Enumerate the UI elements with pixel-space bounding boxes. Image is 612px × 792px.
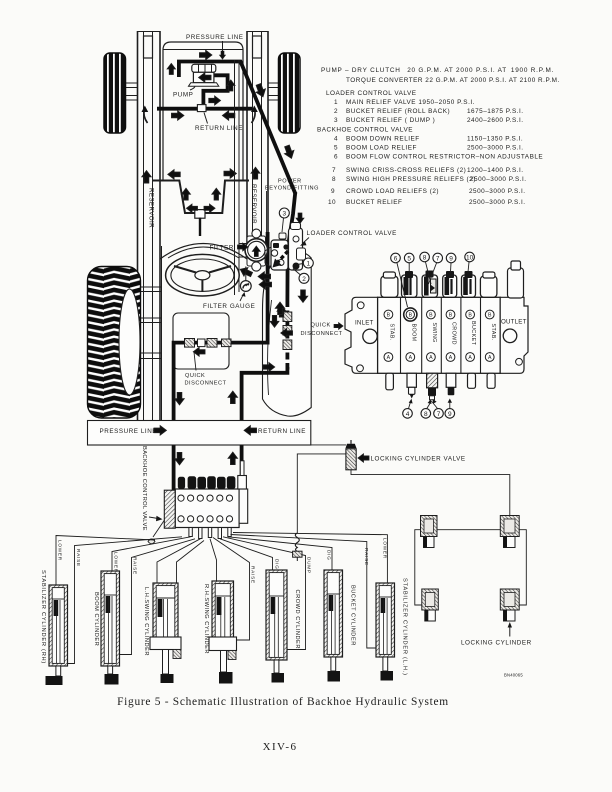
section cap stab2 bbox=[480, 272, 497, 297]
quick disconnect couplers right bbox=[283, 312, 292, 350]
svg-text:BACKHOE CONTROL VALVE: BACKHOE CONTROL VALVE bbox=[317, 127, 413, 134]
port circles row A bbox=[384, 353, 494, 362]
cylinder rh swing bbox=[209, 581, 237, 684]
svg-text:2500–3000 P.S.I.: 2500–3000 P.S.I. bbox=[469, 188, 526, 195]
curved arrow right of return bbox=[251, 106, 258, 124]
svg-text:1: 1 bbox=[334, 99, 338, 106]
quick disconnect chain right (dashed) bbox=[285, 300, 289, 370]
frame rail right bbox=[247, 31, 268, 252]
svg-text:2500–3000 P.S.I.: 2500–3000 P.S.I. bbox=[470, 176, 527, 183]
svg-text:CROWD: CROWD bbox=[451, 322, 457, 345]
svg-text:POWER: POWER bbox=[278, 179, 302, 185]
pump bbox=[189, 64, 219, 86]
bottom spool swing (reliefs 8,7) bbox=[427, 373, 438, 400]
svg-text:10: 10 bbox=[466, 254, 474, 261]
locking circuit feed bbox=[351, 470, 510, 515]
band arrows above bbox=[175, 393, 184, 405]
svg-text:BOOM DOWN RELIEF: BOOM DOWN RELIEF bbox=[346, 136, 420, 143]
svg-text:MAIN RELIEF VALVE 1950–2050 P.: MAIN RELIEF VALVE 1950–2050 P.S.I. bbox=[346, 99, 475, 106]
quick disconnect label left bbox=[185, 373, 227, 387]
svg-text:LOCKING CYLINDER: LOCKING CYLINDER bbox=[461, 640, 532, 647]
power beyond leader line bbox=[266, 191, 268, 250]
svg-text:LOCKING CYLINDER VALVE: LOCKING CYLINDER VALVE bbox=[371, 456, 466, 463]
locking valve feed line bbox=[297, 454, 346, 533]
front axle right bbox=[268, 83, 279, 100]
svg-text:DISCONNECT: DISCONNECT bbox=[301, 331, 343, 337]
down arrow right of circled 3 bbox=[296, 213, 304, 223]
svg-text:BOOM CYLINDER: BOOM CYLINDER bbox=[93, 592, 99, 646]
svg-text:LOWER: LOWER bbox=[114, 552, 119, 573]
svg-text:RAISE: RAISE bbox=[133, 557, 138, 575]
section labels bbox=[389, 321, 496, 346]
hose stab lh lower bbox=[233, 533, 387, 584]
teardrop connector bbox=[148, 520, 165, 544]
svg-text:7: 7 bbox=[436, 255, 440, 262]
bottom spool bucket bbox=[468, 373, 476, 388]
hose lh swing a bbox=[157, 539, 200, 583]
funnel arrows bbox=[168, 170, 180, 179]
svg-text:BN40065: BN40065 bbox=[504, 673, 523, 678]
backhoe valve body bbox=[175, 489, 239, 528]
svg-text:PUMP: PUMP bbox=[173, 92, 193, 99]
bottom spool boom (relief 4) bbox=[407, 373, 416, 398]
svg-text:L.H.SWING CYLINDER: L.H.SWING CYLINDER bbox=[143, 587, 149, 656]
svg-text:BEYOND FITTING: BEYOND FITTING bbox=[265, 186, 319, 192]
svg-text:QUICK: QUICK bbox=[311, 323, 331, 329]
svg-text:BUCKET: BUCKET bbox=[470, 321, 476, 346]
circled 9 bottom bbox=[445, 399, 455, 419]
svg-text:1: 1 bbox=[306, 261, 310, 268]
svg-text:RAISE: RAISE bbox=[251, 566, 256, 584]
band bottom supply line to locking valve bbox=[88, 444, 347, 446]
curved arrow left of return bbox=[142, 106, 149, 124]
svg-text:A: A bbox=[429, 355, 433, 361]
loader control valve body bbox=[265, 223, 306, 271]
svg-text:2: 2 bbox=[302, 276, 306, 283]
svg-text:6: 6 bbox=[394, 255, 398, 262]
hose coil bbox=[295, 533, 299, 552]
svg-text:RAISE: RAISE bbox=[76, 549, 81, 567]
loader valve flow arrows bbox=[238, 265, 253, 279]
circled 1 bbox=[297, 258, 313, 268]
filter gauge bbox=[240, 281, 251, 292]
pressure line (thick) bbox=[179, 62, 296, 195]
backhoe valve relief tower bbox=[238, 461, 247, 489]
svg-text:4: 4 bbox=[406, 411, 410, 418]
svg-text:DISCONNECT: DISCONNECT bbox=[185, 381, 227, 387]
cylinder crowd bbox=[266, 570, 287, 683]
locking cylinder label bbox=[461, 622, 532, 647]
svg-text:STAB.: STAB. bbox=[490, 324, 496, 341]
svg-text:RAISE: RAISE bbox=[364, 548, 369, 566]
svg-text:RESERVOIR: RESERVOIR bbox=[250, 184, 257, 224]
svg-text:10: 10 bbox=[328, 199, 336, 206]
svg-text:7: 7 bbox=[437, 411, 441, 418]
hose stab rh raise bbox=[64, 537, 182, 664]
steering wheel bbox=[166, 254, 240, 296]
svg-text:STAB.: STAB. bbox=[389, 324, 395, 341]
quick disconnect right arrow bbox=[281, 329, 293, 338]
svg-text:8: 8 bbox=[332, 176, 336, 183]
circled 10 top bbox=[465, 252, 475, 272]
hose crowd dig bbox=[220, 539, 273, 570]
svg-text:INLET: INLET bbox=[355, 320, 374, 327]
backhoe valve left plate bbox=[164, 490, 175, 528]
svg-text:RETURN LINE: RETURN LINE bbox=[195, 125, 243, 132]
hose stab rh lower bbox=[56, 536, 155, 586]
svg-text:STABILIZER CYLINDER (RH): STABILIZER CYLINDER (RH) bbox=[40, 570, 46, 664]
hose rh swing a bbox=[210, 539, 217, 581]
svg-text:XIV-6: XIV-6 bbox=[263, 741, 298, 753]
reservoir up arrow right rail bbox=[251, 167, 260, 179]
return line coupler bbox=[197, 105, 206, 112]
band arrows below bbox=[175, 453, 184, 465]
backhoe valve right plate bbox=[239, 489, 248, 523]
backhoe valve port circles bottom row bbox=[178, 516, 233, 522]
locking loop top bbox=[437, 529, 500, 531]
loader control valve label bbox=[300, 230, 397, 246]
circled 7 bottom bbox=[432, 399, 444, 418]
svg-text:DUMP: DUMP bbox=[307, 557, 312, 574]
circled 6 bbox=[391, 253, 408, 307]
return line (thick) bbox=[157, 107, 252, 111]
svg-text:4: 4 bbox=[334, 136, 338, 143]
svg-text:A: A bbox=[468, 355, 472, 361]
power beyond fitting label bbox=[265, 179, 319, 192]
svg-text:BOOM FLOW CONTROL RESTRICTOR–N: BOOM FLOW CONTROL RESTRICTOR–NON ADJUSTA… bbox=[346, 154, 543, 161]
svg-text:2: 2 bbox=[334, 108, 338, 115]
svg-text:A: A bbox=[409, 355, 413, 361]
svg-text:5: 5 bbox=[334, 145, 338, 152]
operator seat box bbox=[173, 313, 229, 369]
section cap swing (reliefs 8,7) bbox=[422, 271, 437, 298]
hose crowd dump bbox=[223, 537, 306, 650]
bottom spool stab2 bbox=[487, 373, 495, 388]
hose lh swing b bbox=[177, 541, 205, 638]
quick disconnect left leader bbox=[194, 352, 196, 371]
arrow to inlet bbox=[334, 323, 343, 330]
cylinder stabilizer rh bbox=[46, 585, 68, 685]
circled 3 bbox=[279, 208, 289, 232]
svg-text:Figure 5 - Schematic Illustrat: Figure 5 - Schematic Illustration of Bac… bbox=[117, 696, 449, 708]
svg-text:SWING HIGH PRESSURE RELIEFS (2: SWING HIGH PRESSURE RELIEFS (2) bbox=[346, 176, 476, 183]
svg-text:LOWER: LOWER bbox=[383, 538, 388, 559]
svg-text:B: B bbox=[429, 313, 433, 319]
cylinder boom bbox=[101, 571, 120, 685]
filter label bbox=[210, 243, 248, 251]
svg-text:3: 3 bbox=[282, 211, 286, 218]
valve bank body bbox=[378, 297, 501, 373]
outlet end plate bbox=[500, 297, 528, 373]
circled 4 bottom bbox=[403, 399, 413, 418]
svg-text:A: A bbox=[449, 355, 453, 361]
svg-text:R.H.SWING CYLINDER: R.H.SWING CYLINDER bbox=[203, 584, 209, 654]
circled 7 top bbox=[429, 253, 443, 284]
svg-text:BUCKET RELIEF ( DUMP ): BUCKET RELIEF ( DUMP ) bbox=[346, 117, 435, 124]
pressure line leader arrow bbox=[219, 41, 225, 59]
svg-text:8: 8 bbox=[424, 411, 428, 418]
svg-text:7: 7 bbox=[332, 167, 336, 174]
svg-text:B: B bbox=[468, 313, 472, 319]
loader valve drop line (thick) bbox=[174, 232, 268, 511]
svg-text:PRESSURE LINE: PRESSURE LINE bbox=[186, 34, 244, 41]
section cap crowd (relief 9) bbox=[443, 271, 457, 297]
svg-text:A: A bbox=[488, 355, 492, 361]
circled 5 bbox=[404, 253, 414, 272]
inlet end plate bbox=[345, 297, 378, 373]
hose bucket dig bbox=[228, 537, 332, 570]
cylinder stabilizer lh bbox=[376, 583, 395, 681]
svg-text:TORQUE CONVERTER 22 G.P.M. AT: TORQUE CONVERTER 22 G.P.M. AT 2000 P.S.I… bbox=[346, 77, 560, 84]
svg-text:B: B bbox=[387, 313, 391, 319]
bottom spool stab1 bbox=[386, 373, 394, 390]
loader tower capsule bbox=[263, 251, 312, 416]
filter assembly bbox=[245, 229, 268, 271]
capsule flow arrows bbox=[270, 316, 279, 328]
svg-text:B: B bbox=[488, 313, 492, 319]
locking cylinder BL bbox=[422, 589, 439, 621]
fender line bbox=[161, 246, 163, 420]
svg-text:BOOM LOAD RELIEF: BOOM LOAD RELIEF bbox=[346, 145, 417, 152]
section divider lines bbox=[401, 297, 481, 373]
hose stab lh raise bbox=[231, 535, 380, 649]
svg-text:FILTER: FILTER bbox=[210, 245, 235, 252]
rear axle lines bbox=[140, 287, 162, 359]
svg-text:OUTLET: OUTLET bbox=[501, 319, 527, 326]
cylinder bucket bbox=[324, 570, 343, 682]
circled 8 bottom bbox=[421, 399, 432, 418]
hose boom lower bbox=[112, 537, 191, 571]
svg-text:5: 5 bbox=[407, 255, 411, 262]
svg-text:SWING: SWING bbox=[431, 323, 437, 343]
front tire right bbox=[279, 53, 301, 133]
svg-text:DIG: DIG bbox=[327, 550, 332, 561]
right rail lower lines bbox=[235, 60, 240, 295]
svg-text:DIG: DIG bbox=[275, 559, 280, 570]
svg-text:B: B bbox=[409, 313, 413, 319]
filter gauge label bbox=[203, 292, 255, 310]
power beyond diagonal arrow 1 bbox=[254, 83, 268, 99]
pump supply elbow (thick) bbox=[203, 75, 227, 104]
engine hood outline bbox=[163, 42, 243, 180]
svg-text:BUCKET CYLINDER: BUCKET CYLINDER bbox=[350, 585, 356, 646]
quick disconnect left arrow bbox=[193, 347, 205, 356]
outlet relief tower bbox=[508, 261, 524, 298]
svg-text:LOADER CONTROL VALVE: LOADER CONTROL VALVE bbox=[307, 230, 397, 237]
bottom spool crowd (relief 9) bbox=[446, 373, 456, 395]
hose boom raise bbox=[119, 539, 195, 655]
svg-text:BOOM: BOOM bbox=[410, 324, 416, 342]
svg-text:BUCKET RELIEF: BUCKET RELIEF bbox=[346, 199, 402, 206]
svg-text:1200–1400 P.S.I.: 1200–1400 P.S.I. bbox=[467, 167, 524, 174]
cowl shelf and funnel bbox=[153, 181, 249, 237]
svg-text:LOADER CONTROL VALVE: LOADER CONTROL VALVE bbox=[326, 90, 417, 97]
band label pressure line bbox=[100, 426, 167, 435]
svg-text:CROWD CYLINDER: CROWD CYLINDER bbox=[294, 590, 300, 649]
pressure return band bbox=[88, 421, 311, 446]
svg-text:RETURN LINE: RETURN LINE bbox=[258, 428, 306, 435]
svg-text:BACKHOE CONTROL VALVE: BACKHOE CONTROL VALVE bbox=[141, 446, 147, 531]
svg-text:9: 9 bbox=[448, 411, 452, 418]
locking loop left bbox=[415, 530, 422, 605]
svg-text:CROWD LOAD RELIEFS (2): CROWD LOAD RELIEFS (2) bbox=[346, 188, 439, 195]
front axle left bbox=[125, 83, 138, 100]
filter connect lines bbox=[239, 244, 247, 281]
band label return line bbox=[244, 426, 306, 435]
placeholder bbox=[88, 31, 301, 420]
svg-text:1675–1875 P.S.I.: 1675–1875 P.S.I. bbox=[467, 108, 524, 115]
svg-text:1150–1350 P.S.I.: 1150–1350 P.S.I. bbox=[467, 136, 523, 143]
dashboard cowl arcs bbox=[160, 244, 247, 260]
locking cylinder TR bbox=[500, 516, 519, 548]
port circles row B bbox=[384, 308, 494, 321]
quick disconnect couplers left bbox=[185, 339, 232, 348]
svg-text:QUICK: QUICK bbox=[185, 373, 205, 379]
svg-text:B: B bbox=[449, 313, 453, 319]
circled 9 top bbox=[446, 253, 456, 272]
cylinder lh swing bbox=[150, 583, 181, 683]
svg-text:2400–2600 P.S.I.: 2400–2600 P.S.I. bbox=[467, 117, 524, 124]
circled 2 bbox=[293, 269, 309, 284]
front tire left bbox=[104, 53, 126, 133]
svg-text:PRESSURE LINE: PRESSURE LINE bbox=[100, 428, 158, 435]
svg-text:2500–3000 P.S.I.: 2500–3000 P.S.I. bbox=[467, 145, 524, 152]
power beyond diagonal arrow 2 bbox=[282, 144, 296, 160]
power beyond line vertical (thick) bbox=[287, 192, 295, 300]
svg-text:LOWER: LOWER bbox=[58, 540, 63, 561]
quick disconnect label right bbox=[301, 323, 343, 338]
locking loop right bbox=[519, 530, 526, 605]
backhoe valve port circles top row bbox=[178, 495, 233, 501]
circled 8 top bbox=[420, 252, 431, 284]
reservoir up arrow left rail bbox=[142, 171, 151, 183]
pump label bbox=[173, 87, 195, 99]
backhoe valve spool caps bbox=[178, 476, 236, 489]
svg-text:RESERVOIR: RESERVOIR bbox=[148, 188, 155, 228]
locking cylinder BR bbox=[500, 589, 519, 621]
rear wheel bbox=[88, 267, 141, 419]
return line label bbox=[195, 113, 243, 133]
frame rail left bbox=[138, 31, 161, 420]
locking cylinder TL bbox=[421, 516, 438, 548]
svg-text:6: 6 bbox=[334, 154, 338, 161]
backhoe control valve label bbox=[141, 446, 163, 531]
svg-text:8: 8 bbox=[423, 254, 427, 261]
svg-text:9: 9 bbox=[449, 255, 453, 262]
svg-text:3: 3 bbox=[334, 117, 338, 124]
section cap stab1 bbox=[381, 272, 398, 297]
locking cylinder valve bbox=[346, 440, 357, 470]
backhoe valve spool rods below bbox=[189, 528, 231, 539]
hose coupler fitting bbox=[293, 551, 302, 561]
locking cylinder valve label bbox=[358, 454, 466, 463]
hose rh swing b bbox=[213, 538, 250, 641]
svg-text:9: 9 bbox=[331, 188, 335, 195]
svg-text:FILTER GAUGE: FILTER GAUGE bbox=[203, 303, 255, 310]
svg-text:2500–3000 P.S.I.: 2500–3000 P.S.I. bbox=[469, 199, 526, 206]
return elbow to band (thick) bbox=[242, 367, 288, 511]
section cap bucket (relief 10) bbox=[462, 271, 476, 297]
svg-text:A: A bbox=[387, 355, 391, 361]
svg-text:BUCKET RELIEF (ROLL BACK): BUCKET RELIEF (ROLL BACK) bbox=[346, 108, 450, 115]
svg-text:SWING CRISS-CROSS RELIEFS (2): SWING CRISS-CROSS RELIEFS (2) bbox=[346, 167, 466, 174]
hood flow arrows bbox=[200, 50, 212, 59]
svg-text:PUMP – DRY CLUTCH 20 G.P.M. A: PUMP – DRY CLUTCH 20 G.P.M. AT 2000 P.S.… bbox=[321, 67, 554, 74]
svg-text:STABILIZER CYLINDER (L.H.): STABILIZER CYLINDER (L.H.) bbox=[402, 578, 408, 676]
section cap boom (relief 5) bbox=[402, 271, 417, 297]
